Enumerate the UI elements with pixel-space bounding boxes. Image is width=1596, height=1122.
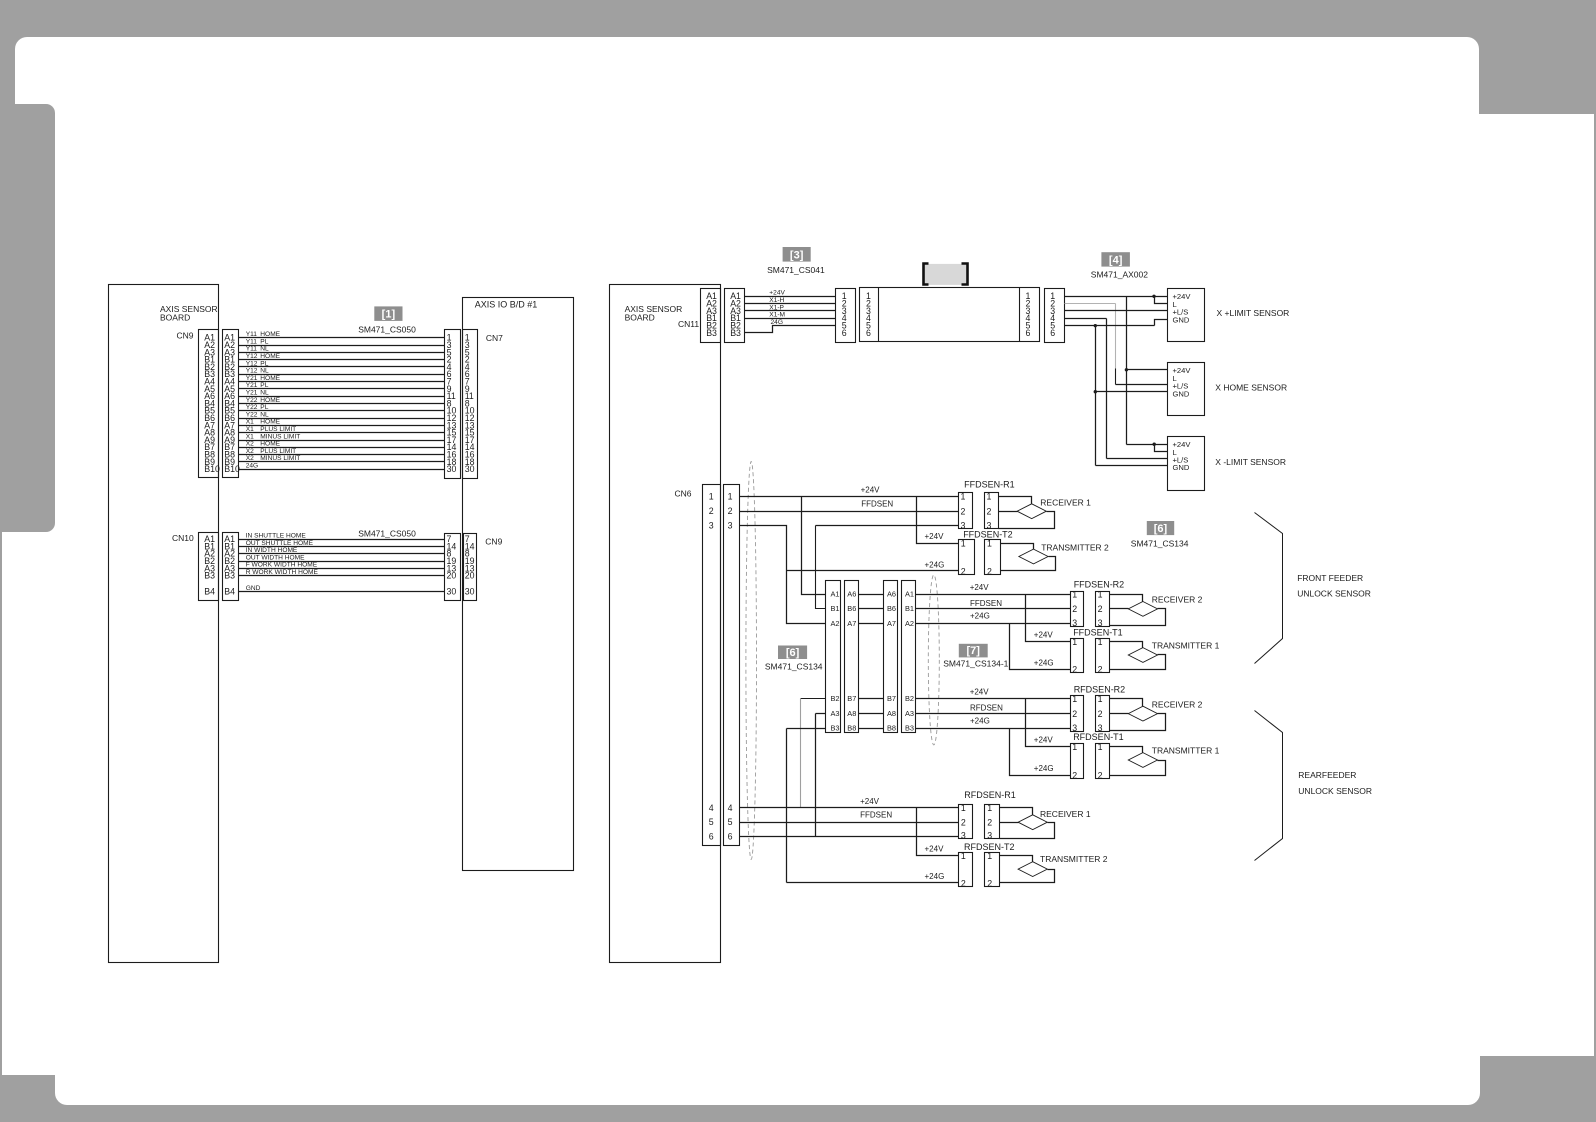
wire receiver 1 (RFDSEN-R1) pin3 return loop — [1000, 823, 1055, 839]
svg-text:+24G: +24G — [925, 872, 945, 881]
svg-text:MINUS LIMIT: MINUS LIMIT — [260, 433, 300, 440]
svg-text:RFDSEN-T1: RFDSEN-T1 — [1073, 732, 1124, 742]
svg-text:X -LIMIT SENSOR: X -LIMIT SENSOR — [1215, 457, 1286, 467]
sensor X +LIMIT SENSOR — [1168, 289, 1205, 342]
photo-diode diamond receiver 2 (FFDSEN-R2) — [1128, 602, 1157, 617]
svg-text:3: 3 — [961, 830, 966, 840]
wire CN6 6 run to RFDSEN-R1 3 — [740, 836, 959, 838]
svg-text:PL: PL — [260, 360, 268, 367]
svg-text:HOME: HOME — [260, 419, 280, 426]
svg-text:SM471_CS134: SM471_CS134 — [1131, 539, 1189, 549]
cable tag [3] — [783, 247, 811, 262]
svg-text:1: 1 — [961, 851, 966, 861]
cable loom ellipse (CN6 bundle) — [746, 461, 757, 859]
wire +24V (CN11 A1 to pin 1) — [745, 296, 836, 298]
wire GND (CN10 B4 to CN9 30) — [239, 591, 445, 593]
wire mating stub A7 — [859, 623, 884, 625]
svg-text:3: 3 — [1072, 618, 1077, 628]
svg-text:B1: B1 — [905, 604, 914, 613]
svg-text:B6: B6 — [887, 604, 896, 613]
svg-text:CN10: CN10 — [172, 533, 194, 543]
svg-text:IN SHUTTLE HOME: IN SHUTTLE HOME — [246, 533, 307, 540]
svg-text:B3: B3 — [905, 724, 914, 733]
svg-text:B7: B7 — [847, 694, 856, 703]
svg-text:1: 1 — [961, 538, 966, 548]
wire sensor2 +24V stub — [1127, 369, 1168, 371]
svg-text:GND: GND — [1173, 315, 1190, 324]
svg-text:+24V: +24V — [861, 486, 881, 495]
photo-diode diamond receiver 1 (FFDSEN-R1) — [1017, 504, 1046, 519]
svg-text:Y22: Y22 — [246, 411, 258, 418]
wire receiver 1 (FFDSEN-R1) pin1 to diamond — [999, 497, 1032, 504]
svg-text:1: 1 — [1098, 637, 1103, 647]
svg-text:B3: B3 — [224, 571, 235, 581]
svg-text:REARFEEDER: REARFEEDER — [1298, 770, 1356, 780]
svg-text:B3: B3 — [204, 571, 215, 581]
wire receiver 1 (RFDSEN-R1) pin2 to diamond — [1000, 822, 1019, 824]
svg-text:2: 2 — [709, 506, 714, 516]
board AXIS SENSOR BOARD (left) — [109, 285, 219, 963]
wire receiver 2 (RFDSEN-R2) pin1 to diamond — [1110, 699, 1143, 707]
svg-text:RECEIVER 2: RECEIVER 2 — [1152, 595, 1203, 605]
wire L jog at X+limit sensor — [1155, 297, 1168, 304]
svg-text:SM471_CS134-1: SM471_CS134-1 — [943, 659, 1008, 669]
svg-text:30: 30 — [465, 464, 475, 474]
svg-text:+24G: +24G — [1034, 764, 1054, 773]
wire +L/S net (pin3 to X+limit sensor +L/S) — [1065, 310, 1168, 312]
wire receiver 2 (RFDSEN-R2) pin3 return loop — [1110, 714, 1166, 731]
svg-text:1: 1 — [709, 491, 714, 501]
svg-text:FFDSEN-R1: FFDSEN-R1 — [964, 480, 1015, 490]
svg-text:A8: A8 — [887, 709, 896, 718]
svg-text:BOARD: BOARD — [625, 313, 655, 323]
svg-text:A2: A2 — [905, 619, 914, 628]
wire mating stub B6 — [859, 608, 884, 610]
connector SM471_AX002 sensor-side plug (pins 1-6) — [1045, 289, 1065, 343]
svg-text:SM471_CS134: SM471_CS134 — [765, 661, 823, 671]
svg-text:30: 30 — [447, 464, 457, 474]
cable loom ellipse (CS134-1 bundle) — [928, 575, 939, 745]
wire Y21 PL (CN9 A5 to CN7 9) — [239, 388, 445, 390]
svg-text:A1: A1 — [905, 589, 914, 598]
bracket FRONT FEEDER UNLOCK SENSOR — [1255, 513, 1283, 664]
svg-text:B4: B4 — [204, 587, 215, 597]
svg-text:X +LIMIT SENSOR: X +LIMIT SENSOR — [1217, 308, 1290, 318]
svg-text:A7: A7 — [847, 619, 856, 628]
wire X2 MINUS LIMIT (CN9 B9 to CN7 18) — [239, 461, 445, 463]
svg-text:+24V: +24V — [970, 583, 990, 592]
board AXIS IO B/D #1 — [463, 298, 574, 871]
svg-text:2: 2 — [1072, 709, 1077, 719]
cable marker plate (bracketed gray) — [923, 264, 968, 285]
svg-text:B8: B8 — [847, 724, 856, 733]
wire +24V branch to RFDSEN-T1 1 — [1026, 699, 1071, 747]
svg-text:UNLOCK SENSOR: UNLOCK SENSOR — [1298, 786, 1372, 796]
svg-text:30: 30 — [447, 587, 457, 597]
svg-text:TRANSMITTER 2: TRANSMITTER 2 — [1040, 854, 1108, 864]
wire FFDSEN (CN6 2 to FFDSEN-R1 2) — [740, 511, 959, 513]
svg-text:2: 2 — [987, 566, 992, 576]
svg-text:1: 1 — [987, 538, 992, 548]
wire R WORK WIDTH HOME (CN10 B3 to CN9 20) — [239, 575, 445, 577]
svg-text:2: 2 — [1098, 770, 1103, 780]
svg-text:TRANSMITTER 1: TRANSMITTER 1 — [1152, 641, 1220, 651]
svg-text:B2: B2 — [830, 694, 839, 703]
svg-text:A2: A2 — [830, 619, 839, 628]
wire +24G branch to FFDSEN-T1 2 — [1010, 624, 1071, 670]
svg-text:+24V: +24V — [970, 687, 990, 696]
svg-text:6: 6 — [1050, 328, 1055, 338]
svg-text:PL: PL — [260, 382, 268, 389]
wire X1-H (CN11 A2 to pin 2) — [745, 303, 836, 305]
wire +24V (CN6 4 to RFDSEN-R1 1) — [740, 807, 959, 809]
svg-text:B7: B7 — [887, 694, 896, 703]
wire sensor3 L jog — [1155, 445, 1168, 452]
svg-text:2: 2 — [728, 506, 733, 516]
wire IN WIDTH HOME (CN10 A2 to CN9 8) — [239, 553, 445, 555]
wire Y12 NL (CN9 B3 to CN7 6) — [239, 374, 445, 376]
svg-text:PL: PL — [260, 338, 268, 345]
svg-text:+24V: +24V — [925, 845, 945, 854]
svg-text:A3: A3 — [905, 709, 914, 718]
svg-text:+24V: +24V — [925, 532, 945, 541]
wire OUT WIDTH HOME (CN10 B2 to CN9 19) — [239, 561, 445, 563]
wire FFDSEN (CN6 5 to RFDSEN-R1 2) — [740, 822, 959, 824]
svg-text:Y12: Y12 — [246, 360, 258, 367]
photo-diode diamond transmitter 1 (FFDSEN-T1) — [1128, 648, 1157, 663]
wire +24G (A2 to FFDSEN-R2 3) — [916, 623, 1071, 625]
svg-text:X1-M: X1-M — [769, 312, 785, 319]
svg-text:FFDSEN-R2: FFDSEN-R2 — [1074, 580, 1125, 590]
svg-text:NL: NL — [260, 368, 269, 375]
svg-text:A1: A1 — [830, 589, 839, 598]
svg-text:3: 3 — [728, 520, 733, 530]
svg-text:2: 2 — [1072, 665, 1077, 675]
wire receiver 1 (FFDSEN-R1) pin2 to diamond — [999, 511, 1018, 513]
wire transmitter 2 (FFDSEN-T2) pin2 return loop — [1001, 557, 1056, 571]
photo-diode diamond receiver 2 (RFDSEN-R2) — [1128, 706, 1157, 721]
svg-text:CN11: CN11 — [678, 319, 699, 329]
svg-text:+24V: +24V — [769, 290, 785, 297]
svg-text:1: 1 — [1072, 589, 1077, 599]
svg-text:24G: 24G — [246, 463, 258, 470]
svg-text:Y22: Y22 — [246, 397, 258, 404]
wire X1 MINUS LIMIT (CN9 A9 to CN7 17) — [239, 440, 445, 442]
svg-text:X1: X1 — [246, 426, 254, 433]
svg-text:AXIS IO B/D #1: AXIS IO B/D #1 — [475, 300, 538, 310]
svg-text:[6]: [6] — [1154, 523, 1168, 535]
svg-text:OUT WIDTH HOME: OUT WIDTH HOME — [246, 554, 305, 561]
svg-text:+24G: +24G — [1034, 658, 1054, 667]
wire Y22 HOME (CN9 B4 to CN7 8) — [239, 403, 445, 405]
svg-text:20: 20 — [465, 571, 475, 581]
svg-text:1: 1 — [1072, 694, 1077, 704]
svg-text:30: 30 — [465, 587, 475, 597]
wire +24G branch to RFDSEN-T1 2 — [1010, 729, 1071, 776]
wire B3 feed down to +24G run — [787, 728, 826, 730]
svg-text:HOME: HOME — [260, 397, 280, 404]
wire transmitter 2 (RFDSEN-T2) pin2 return loop — [1000, 870, 1055, 883]
svg-text:2: 2 — [987, 878, 992, 888]
wire RFDSEN (A3 to RFDSEN-R2 2) — [916, 713, 1071, 715]
wire receiver 1 (RFDSEN-R1) pin1 to diamond — [1000, 808, 1033, 815]
svg-text:TRANSMITTER 1: TRANSMITTER 1 — [1152, 746, 1220, 756]
svg-text:RECEIVER 1: RECEIVER 1 — [1040, 809, 1091, 819]
wire FFDSEN branch to connector B1 — [816, 526, 826, 609]
photo-diode diamond transmitter 2 (RFDSEN-T2) — [1018, 862, 1047, 877]
wire mating stub A6 — [859, 594, 884, 596]
wire transmitter 1 (RFDSEN-T1) pin2 return loop — [1110, 761, 1166, 776]
svg-text:PLUS LIMIT: PLUS LIMIT — [260, 426, 296, 433]
svg-text:3: 3 — [987, 830, 992, 840]
wire X1 HOME (CN9 A7 to CN7 13) — [239, 425, 445, 427]
wire B2 feed (thin) to +24V row — [801, 698, 826, 700]
svg-text:B3: B3 — [730, 328, 741, 338]
wire +24G (CN6 3 down) — [740, 526, 826, 624]
wire Y11 PL (CN9 A2 to CN7 3) — [239, 345, 445, 347]
wire Y12 PL (CN9 B2 to CN7 4) — [239, 366, 445, 368]
svg-text:1: 1 — [1098, 742, 1103, 752]
svg-text:HOME: HOME — [260, 331, 280, 338]
svg-text:CN6: CN6 — [675, 489, 692, 499]
svg-text:2: 2 — [961, 818, 966, 828]
wire +24G run to RFDSEN-T2 2 — [787, 882, 959, 884]
wire A3 feed to CN6 6 row — [816, 713, 826, 715]
svg-text:2: 2 — [961, 507, 966, 517]
svg-text:Y21: Y21 — [246, 375, 258, 382]
svg-text:1: 1 — [987, 851, 992, 861]
wire +24V branch to FFDSEN-T2 1 — [917, 497, 959, 544]
svg-text:B3: B3 — [706, 328, 717, 338]
svg-text:1: 1 — [1072, 637, 1077, 647]
svg-text:FFDSEN: FFDSEN — [861, 500, 893, 509]
svg-text:+24V: +24V — [1034, 736, 1054, 745]
sensor X HOME SENSOR — [1168, 363, 1205, 416]
svg-text:2: 2 — [1072, 770, 1077, 780]
wire X2 HOME (CN9 B7 to CN7 14) — [239, 447, 445, 449]
svg-text:3: 3 — [1098, 618, 1103, 628]
wire +L/S vertical feed (pin4 to sensor3) — [1065, 318, 1107, 320]
wire X1-P (CN11 A3 to pin 3) — [745, 310, 836, 312]
connector CN9 (axis io b/d pin columns) — [445, 534, 461, 601]
svg-text:4: 4 — [709, 803, 714, 813]
svg-text:5: 5 — [728, 817, 733, 827]
svg-text:2: 2 — [987, 507, 992, 517]
svg-text:B4: B4 — [224, 587, 235, 597]
svg-text:Y11: Y11 — [246, 331, 258, 338]
svg-text:2: 2 — [1098, 665, 1103, 675]
svg-text:B3: B3 — [830, 724, 839, 733]
svg-text:1: 1 — [1098, 589, 1103, 599]
svg-text:HOME: HOME — [260, 353, 280, 360]
svg-text:4: 4 — [728, 803, 733, 813]
svg-text:RFDSEN-R2: RFDSEN-R2 — [1074, 684, 1126, 694]
svg-text:Y22: Y22 — [246, 404, 258, 411]
wire Y22 NL (CN9 B6 to CN7 12) — [239, 418, 445, 420]
svg-text:[7]: [7] — [967, 645, 981, 657]
svg-text:Y21: Y21 — [246, 382, 258, 389]
svg-text:1: 1 — [987, 803, 992, 813]
svg-text:A8: A8 — [847, 709, 856, 718]
wire +24G branch to FFDSEN-T2 2 — [787, 570, 959, 572]
svg-text:1: 1 — [987, 492, 992, 502]
svg-text:GND: GND — [1173, 389, 1190, 398]
svg-text:Y11: Y11 — [246, 338, 258, 345]
wire +24V (A1 to FFDSEN-R2 1) — [916, 594, 1071, 596]
svg-text:SM471_CS041: SM471_CS041 — [767, 265, 825, 275]
svg-text:RECEIVER 2: RECEIVER 2 — [1152, 700, 1203, 710]
svg-text:1: 1 — [961, 492, 966, 502]
svg-text:X2: X2 — [246, 448, 254, 455]
wire +24V branch to connector A1 — [802, 497, 826, 595]
svg-text:A3: A3 — [830, 709, 839, 718]
svg-text:UNLOCK SENSOR: UNLOCK SENSOR — [1297, 589, 1371, 599]
svg-text:X2: X2 — [246, 441, 254, 448]
svg-text:Y21: Y21 — [246, 390, 258, 397]
svg-text:+24G: +24G — [970, 612, 990, 621]
svg-text:B1: B1 — [830, 604, 839, 613]
cable assembly SM471_AX002 body — [860, 288, 1040, 342]
wire 24G (CN11 B3 to pin 5, jogged) — [745, 326, 836, 333]
svg-text:B2: B2 — [905, 694, 914, 703]
svg-text:6: 6 — [1026, 328, 1031, 338]
wire transmitter 1 (FFDSEN-T1) pin1 to diamond — [1110, 642, 1143, 648]
wire Y21 NL (CN9 A6 to CN7 11) — [239, 396, 445, 398]
svg-text:20: 20 — [447, 571, 457, 581]
cable tag [6] (right) — [1147, 521, 1174, 535]
svg-text:X2: X2 — [246, 455, 254, 462]
svg-text:NL: NL — [260, 390, 269, 397]
svg-text:SM471_CS050: SM471_CS050 — [358, 324, 416, 334]
wire Y21 HOME (CN9 A4 to CN7 7) — [239, 381, 445, 383]
svg-text:A7: A7 — [887, 619, 896, 628]
svg-text:Y12: Y12 — [246, 353, 258, 360]
wire +24V (B2 to RFDSEN-R2 1) — [916, 698, 1071, 700]
wire mating stub A8 — [859, 713, 884, 715]
svg-text:2: 2 — [1072, 604, 1077, 614]
svg-text:MINUS LIMIT: MINUS LIMIT — [260, 455, 300, 462]
wire OUT SHUTTLE HOME (CN10 B1 to CN9 14) — [239, 546, 445, 548]
wire +24V vertical feed (sensors 2,3) — [1126, 297, 1128, 445]
svg-text:B8: B8 — [887, 724, 896, 733]
svg-text:+24G: +24G — [970, 717, 990, 726]
wire mating stub B7 — [859, 698, 884, 700]
svg-text:5: 5 — [709, 817, 714, 827]
svg-text:X HOME SENSOR: X HOME SENSOR — [1215, 382, 1287, 392]
svg-text:RECEIVER 1: RECEIVER 1 — [1040, 497, 1091, 507]
svg-text:NL: NL — [260, 346, 269, 353]
svg-text:6: 6 — [728, 831, 733, 841]
sensor X -LIMIT SENSOR — [1168, 437, 1205, 491]
svg-text:6: 6 — [866, 328, 871, 338]
wire Y11 HOME (CN9 A1 to CN7 1) — [239, 337, 445, 339]
wire FFDSEN (B1 to FFDSEN-R2 2) — [916, 608, 1071, 610]
wire receiver 2 (FFDSEN-R2) pin2 to diamond — [1110, 608, 1129, 610]
svg-text:CN9: CN9 — [485, 537, 502, 547]
svg-text:OUT SHUTTLE HOME: OUT SHUTTLE HOME — [246, 540, 314, 547]
wire +24V (CN6 1 to FFDSEN-R1 1) — [740, 496, 959, 498]
svg-text:GND: GND — [1173, 463, 1190, 472]
wire sensor3 GND stub — [1096, 465, 1168, 467]
wire receiver 2 (FFDSEN-R2) pin3 return loop — [1110, 609, 1166, 626]
wire GND vertical feed (sensors 2,3) — [1095, 326, 1097, 466]
wire +24V net (pin1 to X+limit sensor +24V) — [1065, 296, 1168, 298]
wire sensor3 +L/S stub — [1107, 458, 1168, 460]
svg-text:2: 2 — [961, 878, 966, 888]
svg-text:+24V: +24V — [860, 797, 880, 806]
connector SM471_CS134 plug (A1-B3 / A6-B8) — [826, 581, 841, 733]
svg-text:X1-P: X1-P — [769, 304, 784, 311]
svg-text:SM471_CS050: SM471_CS050 — [358, 529, 416, 539]
wire GND jog at X+limit sensor — [1155, 320, 1168, 326]
svg-text:FRONT FEEDER: FRONT FEEDER — [1297, 573, 1363, 583]
svg-text:3: 3 — [709, 520, 714, 530]
svg-text:BOARD: BOARD — [160, 313, 190, 323]
svg-text:1: 1 — [961, 803, 966, 813]
wire X2 PLUS LIMIT (CN9 B8 to CN7 16) — [239, 454, 445, 456]
photo-diode diamond receiver 1 (RFDSEN-R1) — [1018, 815, 1047, 830]
svg-text:IN WIDTH HOME: IN WIDTH HOME — [246, 547, 298, 554]
svg-text:B10: B10 — [224, 464, 240, 474]
svg-text:[4]: [4] — [1109, 254, 1123, 266]
svg-text:1: 1 — [728, 491, 733, 501]
photo-diode diamond transmitter 1 (RFDSEN-T1) — [1128, 753, 1157, 768]
svg-text:R WORK WIDTH HOME: R WORK WIDTH HOME — [246, 569, 319, 576]
svg-text:B10: B10 — [204, 464, 220, 474]
cable tag [4] — [1101, 252, 1130, 266]
svg-text:[3]: [3] — [790, 249, 804, 261]
svg-text:1: 1 — [1072, 742, 1077, 752]
svg-text:Y11: Y11 — [246, 346, 258, 353]
svg-text:2: 2 — [987, 818, 992, 828]
wire sensor2 +L/S stub (from gray L net) — [1116, 384, 1168, 386]
svg-text:CN9: CN9 — [177, 330, 194, 340]
svg-text:X1: X1 — [246, 419, 254, 426]
wire X1 PLUS LIMIT (CN9 A8 to CN7 15) — [239, 432, 445, 434]
svg-text:CN7: CN7 — [486, 333, 503, 343]
svg-text:X1-H: X1-H — [769, 297, 784, 304]
wire transmitter 2 (FFDSEN-T2) pin1 to diamond — [1001, 544, 1034, 550]
wire +24G (B3 to RFDSEN-R2 3) — [916, 728, 1071, 730]
wire receiver 2 (FFDSEN-R2) pin1 to diamond — [1110, 595, 1143, 602]
svg-text:6: 6 — [709, 831, 714, 841]
wire sensor3 +24V stub — [1127, 444, 1168, 446]
svg-text:B6: B6 — [847, 604, 856, 613]
svg-text:SM471_AX002: SM471_AX002 — [1091, 270, 1148, 280]
svg-text:HOME: HOME — [260, 441, 280, 448]
connector CN7 (axis io b/d pin columns) — [445, 330, 461, 479]
svg-text:GND: GND — [246, 585, 261, 592]
svg-text:Y12: Y12 — [246, 368, 258, 375]
wire FFDSEN-R1 pin3 run — [816, 525, 959, 527]
svg-text:A6: A6 — [847, 589, 856, 598]
photo-diode diamond transmitter 2 (FFDSEN-T2) — [1019, 549, 1048, 564]
svg-text:FFDSEN: FFDSEN — [860, 811, 892, 820]
svg-text:24G: 24G — [771, 319, 783, 326]
wire sensor2 GND stub — [1096, 391, 1168, 393]
wire receiver 1 (FFDSEN-R1) pin3 return loop — [999, 512, 1055, 529]
wire Y11 NL (CN9 A3 to CN7 5) — [239, 352, 445, 354]
wire L net gray (pin2) — [1065, 303, 1116, 305]
wire mating stub B8 — [859, 728, 884, 730]
svg-text:+24V: +24V — [1034, 631, 1054, 640]
svg-text:FFDSEN: FFDSEN — [970, 599, 1002, 608]
svg-text:F WORK WIDTH HOME: F WORK WIDTH HOME — [246, 562, 318, 569]
svg-text:HOME: HOME — [260, 375, 280, 382]
svg-text:PL: PL — [260, 404, 268, 411]
svg-text:X1: X1 — [246, 433, 254, 440]
svg-text:[6]: [6] — [786, 647, 800, 659]
